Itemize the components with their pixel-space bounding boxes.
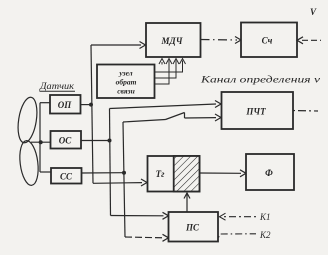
- wire bus1 vertical: [91, 45, 93, 183]
- wire ПЧТ output (dash-dot): [293, 110, 318, 113]
- box Ф: [246, 154, 294, 190]
- wire ОП output to bus1: [81, 104, 92, 106]
- node bus1 junction: [89, 103, 93, 107]
- arrow into МДЧ: [140, 42, 146, 49]
- wire to СС input: [40, 171, 51, 173]
- svg-text:ОП: ОП: [58, 100, 72, 110]
- svg-text:К1: К1: [259, 212, 270, 222]
- arrow into ПС input 1: [163, 212, 169, 219]
- feedback wire 2: [155, 61, 170, 85]
- wire К2 (dash): [219, 234, 257, 238]
- wire ОС output to bus2: [81, 140, 110, 142]
- wire bus2 to ПС input 1: [111, 215, 164, 217]
- wire switch to ПЧТ input 2: [185, 117, 217, 119]
- box узел обрат. связи: [97, 65, 155, 99]
- svg-text:МДЧ: МДЧ: [161, 36, 183, 46]
- box ОС: [51, 131, 82, 149]
- arrow feedback 3: [173, 59, 179, 65]
- svg-text:ПС: ПС: [185, 223, 200, 233]
- svg-text:ПЧТ: ПЧТ: [245, 107, 266, 117]
- wire bus1 to МДЧ input: [91, 44, 141, 46]
- arrow into ПЧТ input 2: [215, 114, 221, 121]
- svg-text:Датчик: Датчик: [39, 81, 75, 91]
- svg-text:К2: К2: [259, 230, 271, 240]
- box ПС: [169, 212, 219, 242]
- node bus2 junction: [108, 139, 112, 143]
- wire Тг to Ф: [200, 172, 242, 174]
- wire bus3 to ПС input 2 (dashed): [125, 236, 164, 239]
- feedback wire 4: [155, 61, 183, 73]
- feedback wire 1 (dashed) to МДЧ: [161, 60, 163, 65]
- arrow into ПЧТ input 1: [215, 101, 221, 108]
- box Тг: [148, 156, 200, 192]
- arrow feedback 4: [180, 59, 186, 65]
- svg-text:обрат: обрат: [116, 78, 137, 87]
- svg-text:СС: СС: [60, 172, 73, 182]
- arrow into Сч: [235, 37, 241, 44]
- svg-text:ОС: ОС: [59, 136, 72, 146]
- arrow feedback 2: [166, 59, 172, 65]
- sensor lens top ellipse (Датчик): [15, 96, 40, 144]
- wire bus2 vertical: [110, 109, 111, 216]
- svg-text:Канал определения v: Канал определения v: [199, 75, 320, 85]
- arrow into Ф: [240, 170, 246, 177]
- switch blade: [166, 113, 185, 120]
- wire sensor vertical bus: [39, 103, 41, 172]
- wire bus2 to ПЧТ input 1: [110, 104, 217, 109]
- arrow into Тг: [141, 179, 147, 186]
- box Сч: [241, 23, 297, 58]
- arrow into Сч right: [297, 37, 303, 44]
- box Тг hatched half: [174, 156, 200, 192]
- box ОП: [50, 95, 81, 114]
- wire СС output to bus3: [82, 172, 125, 174]
- arrow into ПС right К1: [220, 213, 226, 220]
- wire bus1 to Тг input: [93, 182, 142, 185]
- svg-text:V: V: [310, 7, 317, 17]
- svg-text:Сч: Сч: [262, 36, 273, 46]
- svg-text:связи: связи: [117, 87, 135, 96]
- svg-text:Тг: Тг: [156, 169, 165, 179]
- svg-text:узел: узел: [118, 69, 132, 78]
- wire ПС to Тг hatch: [186, 193, 188, 212]
- svg-text:Ф: Ф: [265, 168, 273, 178]
- wire bus3 toward switch: [123, 120, 166, 123]
- box СС: [51, 168, 82, 184]
- arrow up into Тг hatch: [184, 193, 190, 199]
- node sensor junction: [39, 140, 43, 144]
- feedback wire 3: [155, 61, 177, 79]
- arrow feedback 1: [159, 59, 165, 65]
- wire К1 (dash-dot): [224, 216, 256, 218]
- box ПЧТ: [222, 92, 294, 129]
- arrow into ПС input 2: [163, 234, 169, 241]
- wire bus3 vertical: [123, 122, 125, 237]
- box МДЧ: [146, 23, 201, 57]
- node bus3 junction: [122, 171, 126, 175]
- switch contact tick: [184, 113, 186, 119]
- wire МДЧ to Сч (dash-dot): [201, 39, 238, 42]
- sensor lens bottom ellipse (Датчик): [18, 140, 41, 187]
- wire sensor waist to ОС input: [31, 141, 51, 143]
- wire to ОП input: [40, 102, 50, 104]
- wire into Сч right (dash): [302, 39, 321, 41]
